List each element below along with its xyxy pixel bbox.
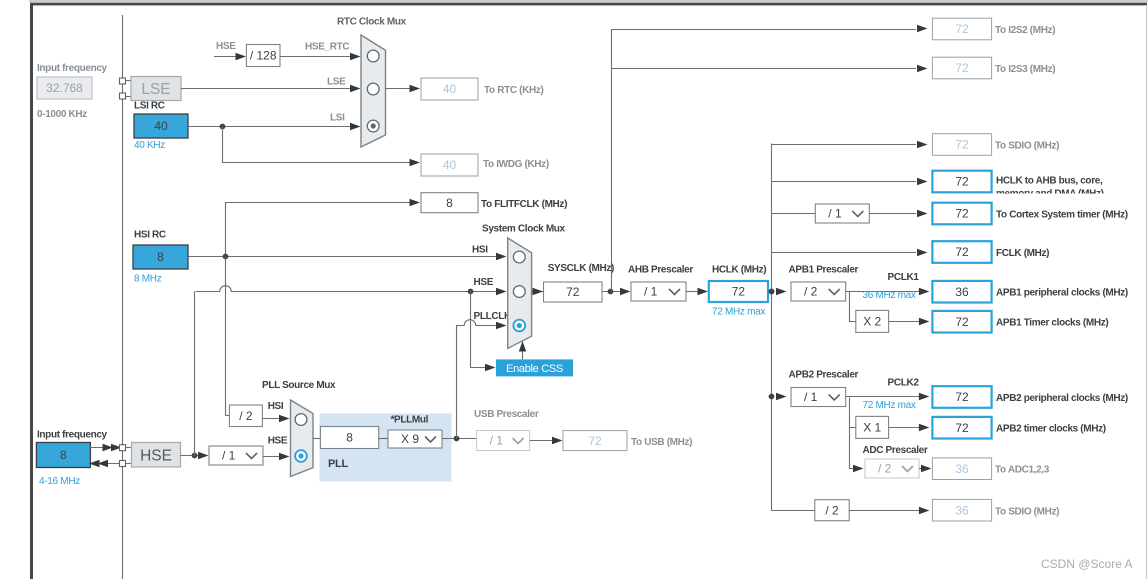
arrowhead into SDIO box (917, 141, 928, 148)
box HSI RC 8 (133, 245, 188, 269)
arrowhead into system mux HSE (496, 288, 507, 295)
svg-text:8: 8 (60, 448, 67, 462)
wire LSI to RTC mux (188, 126, 352, 128)
arrowhead into USB box (552, 437, 563, 444)
svg-text:Enable CSS: Enable CSS (506, 363, 563, 375)
mux input (radio) (295, 414, 307, 426)
svg-text:40: 40 (443, 158, 457, 172)
junction APB1 (769, 289, 775, 295)
wire AHB to HCLK (686, 291, 700, 293)
wire HSI to system mux (188, 256, 498, 258)
arrowhead into ADC box (921, 465, 932, 472)
mux RTC Clock Mux (361, 35, 386, 147)
svg-text:LSI: LSI (330, 113, 345, 124)
svg-text:HSI RC: HSI RC (134, 230, 166, 241)
svg-text:36: 36 (955, 503, 969, 517)
svg-text:36: 36 (955, 285, 969, 299)
svg-text:72: 72 (955, 390, 969, 404)
svg-text:To USB (MHz): To USB (MHz) (631, 437, 692, 448)
svg-text:40: 40 (154, 119, 168, 133)
svg-text:72 MHz max: 72 MHz max (712, 307, 765, 318)
wire APB1 to X2 (850, 292, 856, 322)
mux input (radio) (513, 251, 525, 263)
box PLL input value 8 (320, 427, 378, 449)
arrowhead OSC_OUT a (89, 460, 100, 467)
box PCLK1 value 36 (932, 281, 991, 303)
arrowhead into PLL mux HSE (279, 453, 290, 460)
svg-text:HCLK (MHz): HCLK (MHz) (712, 265, 766, 276)
svg-text:72: 72 (955, 315, 969, 329)
box To I2S3 value 72 (932, 57, 991, 79)
svg-text:40: 40 (443, 82, 457, 96)
arrowhead into SYSCLK box (533, 288, 544, 295)
wire PLL mux output (313, 438, 321, 440)
box LSE oscillator (131, 77, 181, 101)
wire HCLK down to /2 SDIO (772, 510, 815, 512)
svg-text:HSE_RTC: HSE_RTC (305, 42, 349, 53)
svg-text:/ 2: / 2 (804, 285, 818, 299)
mux selected input (radio) (513, 320, 525, 332)
svg-text:PLLCLK: PLLCLK (474, 311, 512, 322)
svg-text:/ 128: / 128 (250, 49, 277, 63)
wire cortex prescaler to box (869, 213, 916, 215)
svg-text:*PLLMul: *PLLMul (391, 415, 429, 426)
arrowhead into PLL mux HSI (279, 415, 290, 422)
svg-text:/ 1: / 1 (644, 285, 658, 299)
svg-text:APB2 peripheral clocks (MHz): APB2 peripheral clocks (MHz) (996, 393, 1128, 404)
dropdown AHB prescaler /1 (631, 282, 686, 301)
box HSE oscillator (132, 443, 181, 468)
arrowhead into HCLK AHB box (917, 178, 928, 185)
wire PLLMul out to USB prescaler (442, 438, 477, 440)
wire /128 to RTC mux (280, 56, 352, 58)
arrowhead OSC_IN a (103, 444, 114, 451)
pin square OSC32_OUT (120, 93, 126, 99)
svg-text:HCLK to AHB bus, core,: HCLK to AHB bus, core, (996, 176, 1103, 187)
box To RTC value 40 (421, 78, 478, 100)
svg-text:HSE: HSE (140, 448, 172, 465)
arrowhead into RTC mux HSE_RTC (350, 53, 361, 60)
wire OSC32_IN to LSE (126, 80, 132, 82)
svg-text:To FLITFCLK (MHz): To FLITFCLK (MHz) (481, 199, 567, 210)
svg-text:8: 8 (157, 250, 164, 264)
box HSE input frequency 8 (36, 443, 90, 468)
svg-text:/ 1: / 1 (828, 207, 842, 221)
svg-text:72: 72 (955, 245, 969, 259)
pin square OSC_IN (120, 445, 126, 451)
box APB1 timer value 72 (932, 311, 991, 333)
wire X1 to APB2 timer box (889, 427, 920, 429)
svg-text:/ 1: / 1 (804, 390, 818, 404)
wire HSE box to OSC_IN (90, 447, 119, 449)
box FCLK value 72 (932, 241, 991, 263)
arrowhead into APB2 timer box (919, 424, 930, 431)
box FLITFCLK value 8 (421, 193, 478, 213)
svg-text:APB2 Prescaler: APB2 Prescaler (789, 370, 859, 381)
wire APB1 to PCLK1 box (846, 291, 920, 293)
wire RTC mux output (386, 88, 412, 90)
box divider /128 (246, 45, 280, 67)
box To SDIO bottom value 36 (932, 499, 991, 521)
dropdown APB2 prescaler /1 (791, 388, 846, 407)
box To I2S2 value 72 (932, 18, 991, 40)
wire SYSCLK to AHB prescaler (602, 291, 622, 293)
wire HCLK to FCLK (772, 252, 916, 254)
wire into /2 divider (226, 415, 231, 417)
wire SYSCLK up to I2S2 (612, 30, 917, 292)
svg-text:72 MHz max: 72 MHz max (863, 400, 916, 411)
wire USB prescaler to USB box (530, 440, 554, 442)
svg-text:memory and DMA (MHz): memory and DMA (MHz) (996, 189, 1104, 200)
arrowhead into system mux PLLCLK (496, 322, 507, 329)
mux PLL Source Mux (291, 400, 314, 477)
wire HSE to Enable CSS (471, 292, 488, 368)
arrowhead into FCLK box (917, 249, 928, 256)
svg-text:X 1: X 1 (863, 421, 881, 435)
svg-text:72: 72 (588, 434, 602, 448)
arrowhead into ADC prescaler (853, 465, 864, 472)
arrowhead into To RTC box (410, 85, 421, 92)
svg-text:72: 72 (955, 61, 969, 75)
svg-text:72: 72 (955, 421, 969, 435)
outer frame top light line (29, 0, 1148, 2)
svg-text:/ 2: / 2 (239, 409, 253, 423)
box LSE input frequency 32.768 (37, 77, 92, 99)
svg-text:PLL Source Mux: PLL Source Mux (262, 380, 336, 391)
svg-text:HSE: HSE (474, 277, 494, 288)
wire OSC32_OUT to LSE (126, 96, 132, 98)
svg-text:/ 2: / 2 (825, 503, 839, 517)
svg-text:LSI RC: LSI RC (134, 101, 165, 112)
wire HCLK to AHB bus box (772, 181, 916, 183)
svg-text:HSE: HSE (268, 436, 288, 447)
svg-text:HSE: HSE (216, 41, 236, 52)
svg-text:4-16 MHz: 4-16 MHz (39, 476, 80, 487)
outer frame right thin line (1146, 5, 1147, 579)
wire HCLK to SDIO (772, 144, 916, 146)
junction HSI branch (223, 254, 229, 260)
svg-text:Input frequency: Input frequency (37, 63, 108, 74)
wire APB2 down to ADC prescaler (850, 428, 856, 469)
arrowhead OSC_IN b (111, 444, 122, 451)
arrowhead into system mux HSI (496, 253, 507, 260)
wire ADC prescaler to box (919, 468, 921, 470)
arrowhead into AHB prescaler (620, 288, 631, 295)
svg-text:HSI: HSI (472, 245, 488, 256)
svg-text:CSDN @Score A: CSDN @Score A (1041, 557, 1133, 571)
dropdown Cortex prescaler /1 (815, 204, 869, 223)
wire HCLK vertical bus (771, 144, 773, 511)
svg-text:72: 72 (566, 285, 580, 299)
svg-text:8: 8 (346, 431, 353, 445)
arrowhead into FLITFCLK box (410, 199, 421, 206)
svg-text:72: 72 (955, 175, 969, 189)
dropdown APB1 prescaler /2 (791, 282, 846, 301)
outer frame top border (30, 3, 1147, 6)
box divider /2 (PLL HSI) (229, 405, 262, 427)
svg-text:36 MHz max: 36 MHz max (863, 290, 916, 301)
mux input (radio) (513, 286, 525, 298)
wire HCLK out (768, 291, 772, 293)
svg-text:To SDIO (MHz): To SDIO (MHz) (995, 141, 1059, 152)
arrowhead into APB1 timer box (919, 318, 930, 325)
box LSI RC 40 (134, 114, 188, 138)
svg-text:72: 72 (955, 22, 969, 36)
svg-text:PCLK2: PCLK2 (888, 378, 920, 389)
wire OSC_IN to HSE osc (126, 447, 132, 449)
svg-text:APB1 Prescaler: APB1 Prescaler (789, 265, 859, 276)
box multiplier X1 (856, 416, 889, 438)
svg-text:AHB Prescaler: AHB Prescaler (628, 265, 693, 276)
svg-text:72: 72 (732, 285, 746, 299)
arrowhead into SDIO bottom box (919, 507, 930, 514)
svg-text:/ 1: / 1 (222, 449, 236, 463)
svg-text:72: 72 (955, 138, 969, 152)
svg-text:SYSCLK (MHz): SYSCLK (MHz) (548, 263, 614, 274)
wire to I2S3 (611, 68, 916, 70)
box To IWDG value 40 (421, 154, 478, 176)
junction SYSCLK (608, 289, 614, 295)
arrowhead CSS up into mux (519, 341, 526, 352)
svg-text:USB Prescaler: USB Prescaler (474, 409, 539, 420)
wire HSE to /1 (181, 455, 201, 457)
svg-text:To I2S2 (MHz): To I2S2 (MHz) (995, 25, 1055, 36)
svg-text:ADC Prescaler: ADC Prescaler (863, 445, 928, 456)
pin square OSC_OUT (120, 461, 126, 467)
mux input (radio) (367, 83, 379, 95)
svg-text:72: 72 (955, 207, 969, 221)
junction APB2 (769, 394, 775, 400)
wire APB2 to PCLK2 box (846, 396, 920, 398)
wire HSI down to PLL /2 (225, 257, 227, 416)
wire LSE to RTC mux (181, 88, 352, 90)
svg-text:40 KHz: 40 KHz (134, 140, 165, 151)
svg-text:To RTC (KHz): To RTC (KHz) (484, 85, 544, 96)
box To ADC value 36 (932, 458, 991, 480)
arrowhead into RTC mux LSE (350, 85, 361, 92)
wire Enable CSS to mux (522, 348, 524, 359)
svg-text:FCLK (MHz): FCLK (MHz) (996, 248, 1049, 259)
box To USB value 72 (563, 431, 627, 451)
box divider /2 (SDIO) (815, 500, 849, 521)
svg-text:LSE: LSE (327, 77, 346, 88)
box HCLK value 72 (709, 281, 768, 302)
svg-text:APB1 Timer clocks (MHz): APB1 Timer clocks (MHz) (996, 318, 1108, 329)
junction HSE branch (192, 453, 198, 459)
arrowhead into PCLK1 box (919, 288, 930, 295)
mux input (radio) (367, 50, 379, 62)
svg-text:APB1 peripheral clocks (MHz): APB1 peripheral clocks (MHz) (996, 288, 1128, 299)
wire OSC_OUT to HSE osc (126, 463, 132, 465)
svg-text:HSI: HSI (268, 401, 284, 412)
arrowhead into Enable CSS (485, 364, 496, 371)
arrowhead into IWDG box (410, 159, 421, 166)
svg-text:LSE: LSE (141, 81, 170, 98)
block PLL background (320, 414, 452, 482)
svg-text:RTC Clock Mux: RTC Clock Mux (337, 17, 407, 28)
junction HCLK (769, 289, 775, 295)
wire LSI to IWDG (223, 127, 412, 163)
arrowhead into /128 (236, 53, 247, 60)
svg-text:To I2S3 (MHz): To I2S3 (MHz) (995, 64, 1055, 75)
dropdown PLLMul X9 (388, 430, 442, 448)
wire HSE stub to /128 (214, 56, 238, 58)
arrowhead OSC_OUT b (98, 460, 109, 467)
wire /2 to PLL mux (262, 418, 279, 420)
wire HSE up to system mux (194, 292, 196, 456)
svg-text:Input frequency: Input frequency (37, 430, 108, 441)
mux selected input (radio) (295, 450, 307, 462)
svg-text:32.768: 32.768 (46, 81, 83, 95)
svg-text:X 2: X 2 (863, 315, 881, 329)
svg-text:To ADC1,2,3: To ADC1,2,3 (995, 465, 1050, 476)
svg-text:/ 2: / 2 (878, 462, 892, 476)
svg-text:To IWDG (KHz): To IWDG (KHz) (483, 159, 549, 170)
box multiplier X2 (856, 310, 889, 332)
svg-text:0-1000 KHz: 0-1000 KHz (37, 109, 87, 120)
svg-text:APB2 timer clocks (MHz): APB2 timer clocks (MHz) (996, 424, 1106, 435)
box Cortex timer value 72 (932, 203, 991, 225)
mux System Clock Mux (508, 238, 532, 348)
dropdown ADC prescaler /2 (grayed) (865, 459, 919, 478)
pin square OSC32_IN (120, 78, 126, 84)
dropdown HSE prediv /1 (209, 446, 263, 465)
arrowhead into APB1 prescaler (776, 288, 787, 295)
wire OSC_OUT to HSE box (98, 463, 120, 465)
wire APB2 to X1 (850, 398, 856, 428)
box HCLK to AHB value 72 (932, 171, 991, 193)
wire /1 to PLL mux (263, 456, 280, 458)
box To SDIO value 72 (932, 134, 991, 156)
arrowhead into I2S3 box (917, 65, 928, 72)
mux selected input (radio) (367, 120, 379, 132)
box APB2 timer value 72 (932, 417, 991, 439)
junction PLLCLK (454, 436, 460, 442)
outer frame left border (30, 3, 33, 579)
svg-text:X 9: X 9 (401, 432, 419, 446)
svg-text:System Clock Mux: System Clock Mux (482, 224, 566, 235)
arrowhead into I2S2 box (917, 25, 928, 32)
svg-text:PCLK1: PCLK1 (888, 272, 920, 283)
wire /2 to SDIO bottom box (849, 510, 920, 512)
button Enable CSS (496, 359, 573, 376)
svg-text:36: 36 (955, 462, 969, 476)
arrowhead into APB2 prescaler (776, 393, 787, 400)
svg-text:To Cortex System timer (MHz): To Cortex System timer (MHz) (996, 210, 1128, 221)
dropdown USB prescaler /1 (grayed) (477, 431, 530, 451)
box SYSCLK value 72 (544, 282, 603, 302)
wire HCLK to cortex prescaler (772, 213, 816, 215)
wire HSE to system mux (hop) (196, 286, 498, 292)
wire HSI to FLITFCLK (226, 203, 412, 258)
wire PLLCLK up to system mux (hop) (457, 320, 498, 439)
wire 8 to PLLMul (379, 438, 389, 440)
svg-text:To SDIO (MHz): To SDIO (MHz) (995, 507, 1059, 518)
svg-text:PLL: PLL (328, 458, 348, 470)
arrowhead into PCLK2 box (919, 393, 930, 400)
junction LSI branch (220, 124, 226, 130)
wire X2 to APB1 timer box (889, 321, 920, 323)
arrowhead into Cortex box (917, 210, 928, 217)
arrowhead into /1 prediv (198, 452, 209, 459)
svg-text:8: 8 (446, 196, 453, 210)
wire system mux to SYSCLK (532, 291, 544, 293)
svg-text:8 MHz: 8 MHz (134, 274, 162, 285)
box PCLK2 value 72 (932, 386, 991, 408)
arrowhead into HCLK box (698, 288, 709, 295)
arrowhead into RTC mux LSI (350, 123, 361, 130)
junction HSE to CSS (468, 289, 474, 295)
svg-text:/ 1: / 1 (490, 434, 504, 448)
pin rail vertical line (122, 15, 124, 579)
